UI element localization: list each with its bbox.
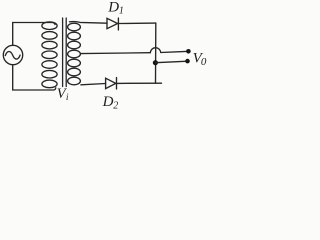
svg-text:0: 0 bbox=[201, 56, 207, 68]
wire bottom-left from source to primary bbox=[13, 65, 56, 90]
svg-text:D: D bbox=[102, 94, 114, 110]
wire center tap from secondary bbox=[81, 52, 150, 55]
wire hump to top output terminal bbox=[161, 51, 186, 52]
transformer secondary winding bbox=[68, 23, 81, 85]
svg-text:D: D bbox=[107, 0, 119, 16]
wire D2 cathode to vertical line bbox=[117, 82, 162, 84]
node junction dot on vertical line bbox=[153, 60, 158, 65]
svg-text:1: 1 bbox=[119, 6, 124, 17]
svg-text:i: i bbox=[66, 93, 69, 103]
wire junction to bottom output terminal bbox=[155, 61, 185, 62]
wire top-left from source to primary bbox=[13, 23, 55, 46]
wire secondary top to D1 anode bbox=[70, 22, 108, 24]
wire secondary bottom to D2 anode bbox=[81, 84, 106, 85]
label D1 bbox=[107, 0, 124, 17]
svg-text:2: 2 bbox=[113, 100, 118, 111]
node top output terminal bbox=[186, 49, 191, 54]
label Vo bbox=[193, 51, 207, 69]
label D2 bbox=[102, 94, 119, 111]
node bottom output terminal bbox=[185, 59, 190, 64]
wire vertical D1-D2 junction line bbox=[155, 23, 157, 83]
diode D1 bbox=[107, 18, 118, 30]
transformer primary winding bbox=[42, 22, 57, 88]
wire D1 cathode to top-right corner bbox=[118, 22, 155, 24]
wire crossover hump bbox=[150, 48, 161, 53]
transformer core bbox=[63, 18, 67, 87]
ac source VS bbox=[3, 45, 22, 64]
diode D2 bbox=[106, 78, 117, 90]
label Vi bbox=[57, 86, 69, 103]
